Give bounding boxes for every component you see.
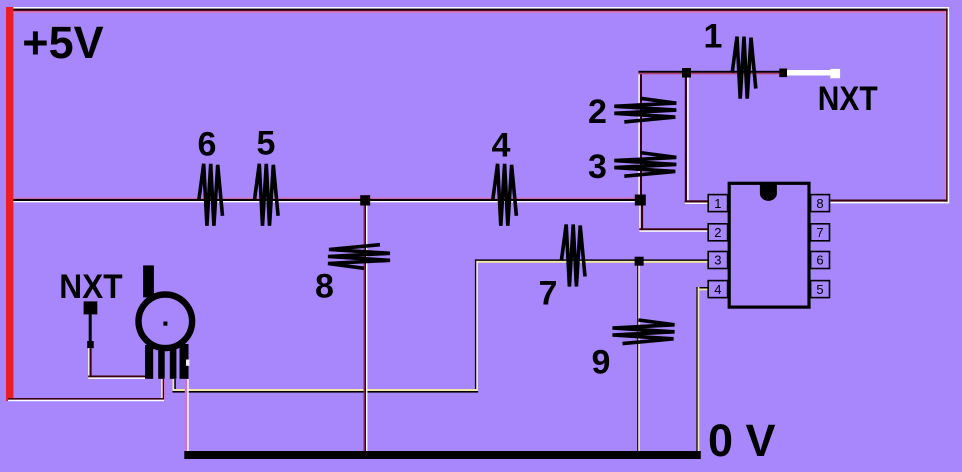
svg-text:0 V: 0 V — [708, 415, 776, 466]
svg-text:6: 6 — [198, 125, 217, 163]
svg-text:2: 2 — [588, 93, 607, 131]
svg-text:5: 5 — [257, 124, 276, 162]
svg-text:5: 5 — [816, 282, 823, 297]
svg-text:8: 8 — [816, 196, 823, 211]
svg-text:2: 2 — [714, 225, 721, 240]
svg-text:4: 4 — [492, 126, 511, 164]
svg-text:9: 9 — [592, 343, 611, 381]
svg-text:NXT: NXT — [818, 79, 878, 117]
svg-text:4: 4 — [714, 282, 721, 297]
svg-text:+5V: +5V — [22, 17, 103, 68]
svg-text:6: 6 — [816, 253, 823, 268]
svg-text:3: 3 — [588, 148, 607, 186]
svg-text:8: 8 — [315, 267, 334, 305]
svg-text:1: 1 — [714, 196, 721, 211]
svg-text:7: 7 — [539, 274, 558, 312]
svg-text:3: 3 — [714, 253, 721, 268]
svg-text:1: 1 — [704, 17, 723, 55]
svg-text:7: 7 — [816, 225, 823, 240]
svg-text:NXT: NXT — [59, 267, 122, 305]
